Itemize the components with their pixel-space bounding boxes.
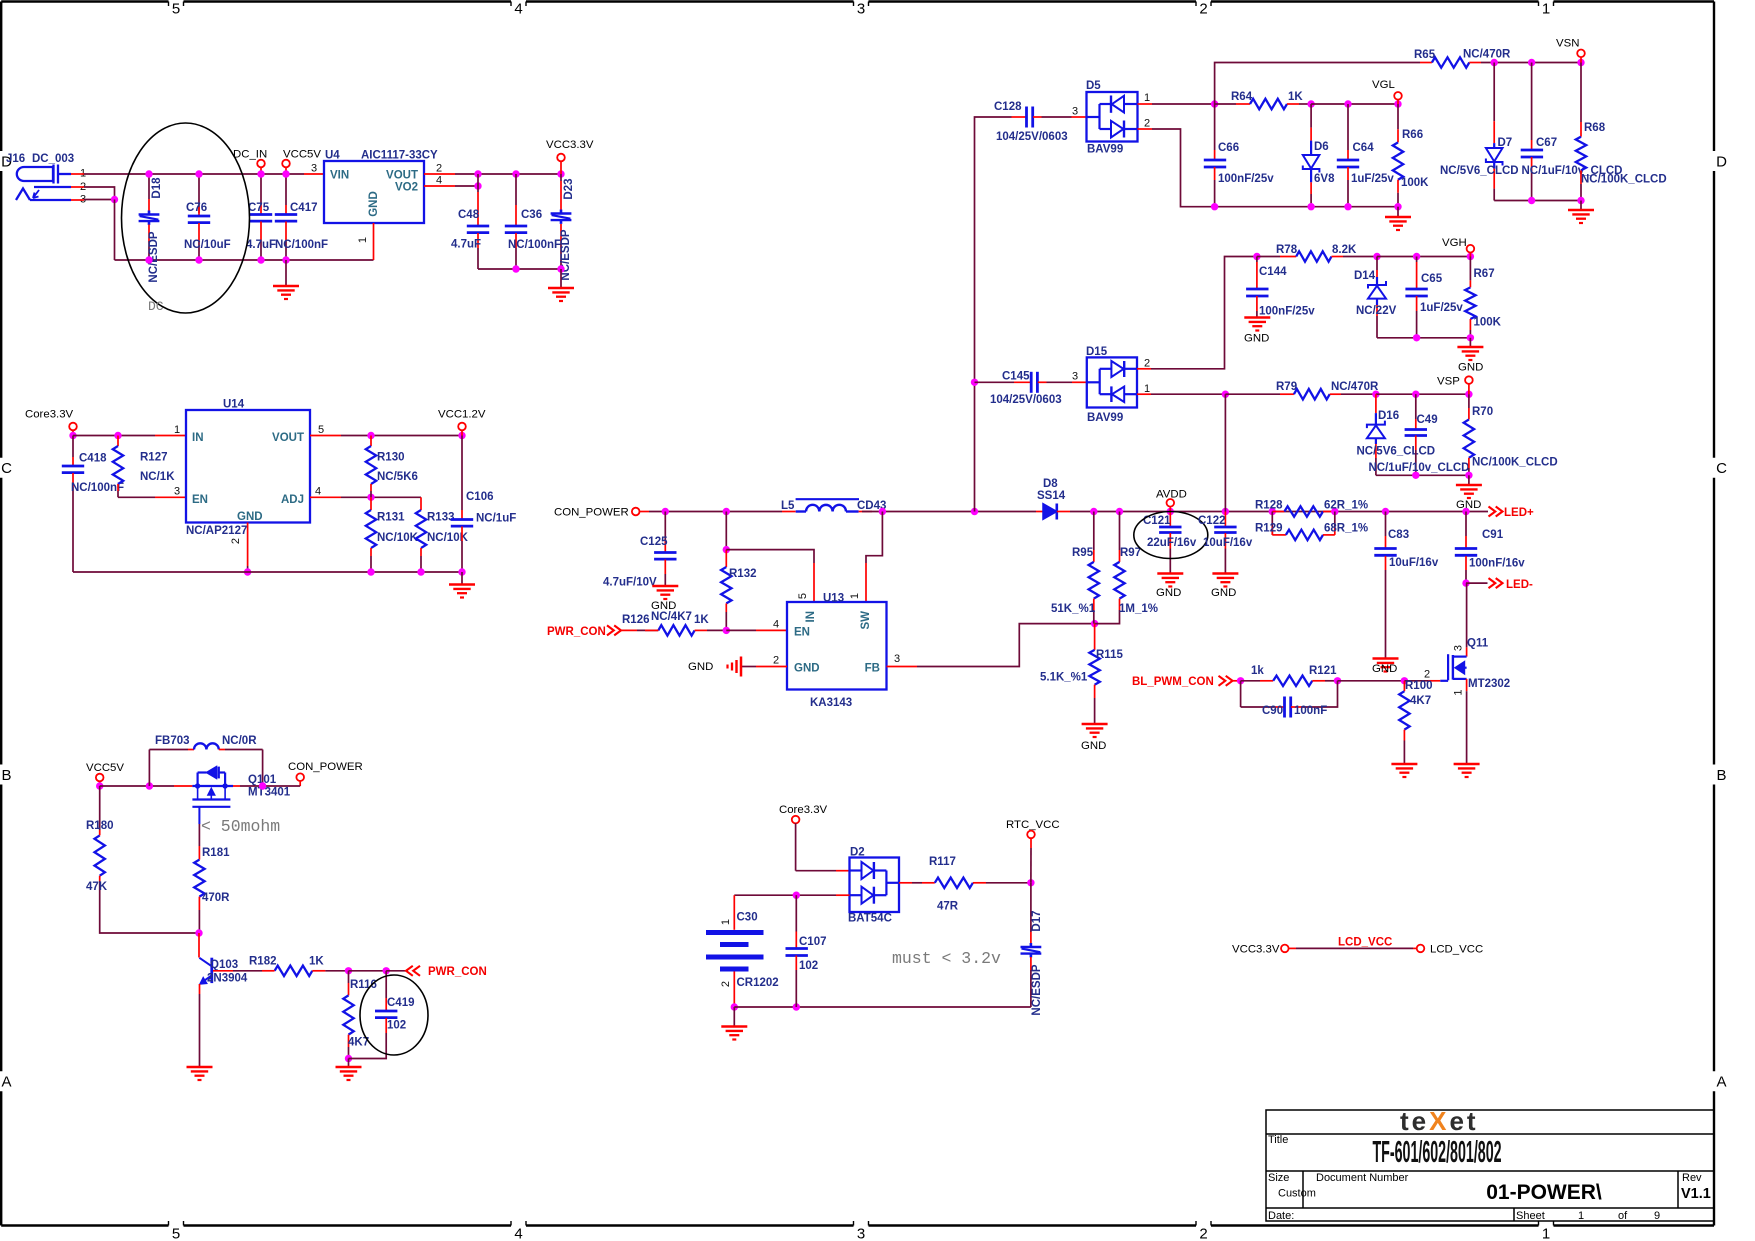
wire DC_IN top rail (84, 173, 304, 175)
ground symbol (187, 1066, 213, 1069)
svg-text:of: of (1618, 1210, 1628, 1222)
svg-text:4: 4 (773, 619, 779, 631)
svg-text:R129: R129 (1255, 523, 1283, 535)
svg-text:NC/470R: NC/470R (1463, 49, 1511, 61)
wire ground drop R116 (348, 1059, 350, 1068)
capacitor C145 104/25V/0603 (975, 381, 1015, 383)
capacitor C66 100nF/25v (1214, 104, 1216, 150)
svg-text:1: 1 (1144, 383, 1150, 395)
wire VCC3.3V ground rail (478, 268, 561, 270)
power port VCC1.2V (458, 423, 466, 431)
svg-text:LCD_VCC: LCD_VCC (1338, 937, 1392, 949)
svg-text:2N3904: 2N3904 (207, 973, 248, 985)
svg-text:470R: 470R (202, 892, 230, 904)
resistor R64 1K (1215, 103, 1236, 105)
diode D15 BAV99 (1087, 357, 1137, 407)
ground symbol (336, 1066, 362, 1069)
junction FB node (1091, 620, 1098, 627)
svg-text:C66: C66 (1218, 142, 1239, 154)
svg-text:C83: C83 (1388, 529, 1409, 541)
resistor R131 NC/10K (370, 497, 372, 510)
capacitor C75 4.7uF (260, 174, 262, 205)
wire ground drop under D23 (560, 269, 562, 288)
ellipse annotation around C419 (360, 975, 428, 1055)
junction C76 top (195, 170, 202, 177)
svg-text:VSN: VSN (1556, 38, 1579, 50)
wire D2 out to R117 (899, 882, 912, 884)
svg-text:2: 2 (1199, 1226, 1207, 1241)
ellipse annotation around C121 (1134, 512, 1208, 559)
junction R127 top (114, 432, 121, 439)
svg-text:100nF/25v: 100nF/25v (1218, 173, 1274, 185)
junction D7 top (1491, 59, 1498, 66)
wire ground drop VSP rail (1468, 475, 1470, 485)
inductor L5 CD43 (782, 511, 796, 513)
ground symbol (449, 583, 475, 586)
junction VO2/C48 (474, 182, 481, 189)
svg-text:Custom: Custom (1278, 1188, 1316, 1200)
svg-text:2: 2 (773, 655, 779, 667)
junction Q101 drain node (259, 782, 266, 789)
junction D6 top (1307, 100, 1314, 107)
svg-text:D23: D23 (563, 178, 575, 199)
junction R97 top (1116, 508, 1123, 515)
svg-text:NC/100nF: NC/100nF (275, 239, 328, 251)
svg-text:D17: D17 (1031, 910, 1043, 931)
svg-text:Title: Title (1268, 1134, 1288, 1146)
wire to U13 IN pin 5 (726, 550, 814, 563)
svg-text:Q103: Q103 (210, 959, 238, 971)
svg-text:VGL: VGL (1372, 79, 1395, 91)
svg-text:R100: R100 (1405, 680, 1433, 692)
svg-text:C128: C128 (994, 101, 1022, 113)
wire U4 VIN pin stub (304, 173, 324, 175)
capacitor C49 NC/1uF/10v_CLCD (1415, 394, 1417, 419)
wire charge pump feed vertical (975, 117, 1012, 512)
capacitor C419 102 (385, 971, 387, 998)
capacitor C76 NC/10uF (198, 174, 200, 213)
svg-text:100nF/25v: 100nF/25v (1259, 306, 1315, 318)
wire VGL ground rail (1215, 206, 1398, 208)
off-page connector LED+ (1489, 507, 1503, 517)
wire LCD_VCC (1296, 947, 1413, 949)
connector J16 DC_003 (DC jack) (17, 167, 53, 181)
svg-text:Core3.3V: Core3.3V (779, 804, 828, 816)
svg-text:NC/1K: NC/1K (140, 471, 175, 483)
svg-text:47R: 47R (937, 901, 959, 913)
svg-text:R97: R97 (1120, 547, 1141, 559)
wire U14 VOUT to VCC1.2V (310, 435, 341, 437)
junction C419 top (383, 967, 390, 974)
svg-text:Document Number: Document Number (1316, 1172, 1409, 1184)
svg-text:C36: C36 (521, 209, 542, 221)
svg-text:C91: C91 (1482, 529, 1504, 541)
diode D6 6V8 zener (1310, 104, 1312, 128)
svg-text:VO2: VO2 (395, 182, 418, 194)
junction VSN node (1577, 59, 1584, 66)
junction VCC3.3V node (557, 170, 564, 177)
ground symbol (1391, 763, 1417, 766)
wire L5 to D8 (862, 511, 1036, 513)
pin stub J16-2 (71, 186, 84, 188)
junction VCC5V node (96, 782, 103, 789)
junction C144/R78 node (1253, 253, 1260, 260)
svg-text:1: 1 (849, 593, 861, 599)
svg-text:10uF/16v: 10uF/16v (1203, 537, 1253, 549)
wire AVDD rail (1070, 511, 1488, 513)
junction C49 bottom (1412, 472, 1419, 479)
diode D16 NC/5V6_CLCD zener (1375, 394, 1377, 413)
svg-text:VOUT: VOUT (272, 432, 304, 444)
svg-text:D5: D5 (1086, 80, 1101, 92)
svg-text:R95: R95 (1072, 547, 1094, 559)
svg-text:1K: 1K (309, 956, 324, 968)
svg-text:Q11: Q11 (1467, 638, 1489, 650)
svg-text:NC/AP2127: NC/AP2127 (186, 525, 247, 537)
junction C66 bottom (1211, 203, 1218, 210)
junction C107 top (793, 892, 800, 899)
svg-text:SS14: SS14 (1037, 490, 1066, 502)
svg-text:5: 5 (318, 424, 324, 436)
wire D5 pin1 to R64 node (1138, 103, 1153, 105)
wire VGH ground rail (1377, 337, 1470, 339)
resistor R130 NC/5K6 (370, 436, 372, 447)
svg-text:5: 5 (172, 1, 180, 18)
capacitor C121 22uF/16v (1169, 512, 1171, 528)
svg-text:U13: U13 (823, 593, 844, 605)
svg-text:R116: R116 (350, 979, 377, 991)
diode D17 ESD NC/ESDP (1030, 883, 1032, 932)
svg-text:PWR_CON: PWR_CON (428, 966, 487, 978)
wire J16 pin3 to ground rail (84, 199, 115, 201)
svg-text:R68: R68 (1584, 122, 1606, 134)
svg-text:GND: GND (1156, 587, 1181, 599)
svg-text:C75: C75 (248, 202, 270, 214)
wire U14 ADJ net (310, 496, 341, 498)
svg-text:4.7uF: 4.7uF (451, 239, 481, 251)
svg-text:4.7uF/10V: 4.7uF/10V (603, 577, 657, 589)
junction Core3.3V node (69, 432, 76, 439)
capacitor C122 10uF/16v (1224, 512, 1226, 528)
power port DC_IN (257, 160, 265, 168)
svg-text:NC/4K7: NC/4K7 (651, 611, 692, 623)
ferrite bead FB703 NC/0R bypass (148, 750, 150, 787)
svg-text:U14: U14 (223, 399, 245, 411)
svg-text:GND: GND (1244, 333, 1269, 345)
resistor R97 1M_1% (1119, 512, 1121, 551)
svg-text:Core3.3V: Core3.3V (25, 409, 74, 421)
svg-text:U4: U4 (325, 150, 340, 162)
svg-text:R67: R67 (1474, 268, 1495, 280)
svg-text:MT3401: MT3401 (248, 787, 291, 799)
pin stub J16-3 (71, 199, 84, 201)
wire U13 FB to divider (887, 666, 918, 668)
svg-text:3: 3 (1072, 371, 1078, 383)
svg-text:BAV99: BAV99 (1087, 144, 1123, 156)
svg-text:C419: C419 (387, 997, 415, 1009)
svg-text:51K_%1: 51K_%1 (1051, 603, 1096, 615)
junction J16 pin3 node (111, 196, 118, 203)
svg-text:D16: D16 (1378, 410, 1399, 422)
svg-text:1: 1 (174, 424, 180, 436)
junction R128 left (1269, 508, 1276, 515)
junction C64 bottom (1344, 203, 1351, 210)
svg-text:must < 3.2v: must < 3.2v (892, 949, 1001, 968)
resistor R67 100K (1469, 257, 1471, 281)
ground symbol (1157, 572, 1183, 575)
svg-text:D18: D18 (151, 177, 163, 199)
resistor R133 NC/10K (420, 497, 422, 510)
resistor R181 470R (198, 824, 200, 846)
svg-text:R115: R115 (1096, 649, 1123, 661)
svg-text:2: 2 (230, 538, 242, 544)
svg-text:8.2K: 8.2K (1332, 244, 1357, 256)
svg-text:R79: R79 (1276, 381, 1297, 393)
svg-text:22uF/16v: 22uF/16v (1147, 537, 1197, 549)
svg-text:2: 2 (1144, 358, 1150, 370)
svg-text:B: B (1, 767, 11, 784)
svg-text:1: 1 (720, 919, 732, 925)
sheet border frame (1, 0, 168, 2)
svg-text:100K: 100K (1474, 317, 1502, 329)
wire left ground rail drop (114, 200, 116, 261)
svg-text:3: 3 (1453, 645, 1465, 651)
svg-text:VCC5V: VCC5V (283, 149, 321, 161)
junction C67 bottom (1528, 197, 1535, 204)
junction D18 bottom (145, 256, 152, 263)
junction C107 bottom (793, 1003, 800, 1010)
junction C91/LED+ node (1462, 508, 1469, 515)
svg-text:4: 4 (436, 175, 442, 187)
junction C67 top (1528, 59, 1535, 66)
junction R131 bottom (367, 568, 374, 575)
svg-text:4: 4 (514, 1, 522, 18)
svg-text:5: 5 (797, 593, 809, 599)
svg-text:BAV99: BAV99 (1087, 412, 1123, 424)
wire Core3.3V to U14 IN (73, 435, 155, 437)
svg-text:GND: GND (1211, 587, 1236, 599)
pin stub J16-1 (71, 173, 84, 175)
svg-text:teXet: teXet (1400, 1106, 1479, 1136)
junction C75 bottom (257, 256, 264, 263)
svg-text:1k: 1k (1251, 665, 1264, 677)
junction AVDD/C121 (1167, 508, 1174, 515)
ground symbol (1373, 657, 1399, 660)
wire U4 VO2 (424, 185, 455, 187)
diode D14 NC/22V zener (1376, 257, 1378, 271)
junction VGH node (1467, 253, 1474, 260)
junction D14 top (1373, 253, 1380, 260)
wire D15 pin2 to VGH line (1151, 257, 1257, 369)
svg-text:R126: R126 (622, 614, 650, 626)
svg-text:V1.1: V1.1 (1681, 1186, 1711, 1202)
svg-text:2: 2 (1199, 1, 1207, 18)
svg-text:R65: R65 (1414, 49, 1436, 61)
svg-text:L5: L5 (781, 500, 795, 512)
junction R130 top (367, 432, 374, 439)
junction FB703 right node (259, 782, 266, 789)
svg-text:DC_IN: DC_IN (233, 149, 267, 161)
svg-text:Size: Size (1268, 1172, 1289, 1184)
resistor R115 5.1K_%1 (1094, 624, 1096, 650)
svg-text:C30: C30 (737, 912, 758, 924)
svg-text:NC/0R: NC/0R (222, 735, 257, 747)
svg-text:GND: GND (368, 191, 380, 217)
resistor R121 1k (1241, 680, 1260, 682)
svg-text:D7: D7 (1498, 137, 1513, 149)
svg-text:CON_POWER: CON_POWER (554, 507, 629, 519)
junction R66 bottom (1394, 203, 1401, 210)
svg-text:Sheet: Sheet (1516, 1210, 1545, 1222)
wire to U13 EN pin 4 (726, 629, 756, 631)
power port VCC3.3V (557, 154, 565, 162)
diode D5 BAV99 (1087, 92, 1138, 142)
svg-text:2: 2 (720, 981, 732, 987)
svg-text:GND: GND (237, 511, 263, 523)
junction R128 right (1331, 508, 1338, 515)
svg-text:C: C (1716, 460, 1727, 477)
svg-text:VCC3.3V: VCC3.3V (546, 139, 594, 151)
resistor R126 1K (658, 625, 694, 635)
svg-text:NC/100K_CLCD: NC/100K_CLCD (1581, 174, 1667, 186)
svg-text:4: 4 (514, 1226, 522, 1241)
resistor R100 4K7 (1403, 681, 1405, 691)
svg-text:10uF/16v: 10uF/16v (1389, 557, 1439, 569)
diode D7 NC/5V6_CLCD zener (1493, 63, 1495, 122)
junction VSP node (1465, 391, 1472, 398)
ground symbol (1244, 316, 1270, 319)
junction R121 right node (1334, 677, 1341, 684)
wire gate drive to Q11 (1338, 680, 1405, 682)
diode D23 ESD NC/ESDP (560, 174, 562, 181)
junction D16 top (1372, 391, 1379, 398)
svg-text:DC_003: DC_003 (32, 153, 74, 165)
svg-text:EN: EN (192, 494, 208, 506)
svg-text:A: A (1, 1074, 11, 1091)
wire J16 pin2 to pin3 node (84, 187, 115, 200)
junction D6 bottom (1307, 203, 1314, 210)
svg-text:TF-601/602/801/802: TF-601/602/801/802 (1372, 1135, 1501, 1170)
junction C66/R64 node (1211, 100, 1218, 107)
svg-text:VCC1.2V: VCC1.2V (438, 409, 486, 421)
svg-text:R117: R117 (929, 856, 956, 868)
junction R116 top (345, 967, 352, 974)
junction C125 tap (662, 508, 669, 515)
wire D15 pin1 to VSP line (1137, 393, 1151, 395)
resistor R66 100K (1397, 104, 1399, 129)
pin stub U14 GND (247, 523, 249, 567)
svg-text:NC/470R: NC/470R (1331, 381, 1379, 393)
svg-text:EN: EN (794, 627, 810, 639)
pin stub D15 pin2 (1137, 368, 1151, 370)
junction R116/C419 bottom (345, 1055, 352, 1062)
svg-text:GND: GND (688, 661, 713, 673)
svg-text:R64: R64 (1231, 91, 1253, 103)
svg-text:C144: C144 (1259, 266, 1287, 278)
wire VSN feed line (1215, 63, 1420, 105)
capacitor C125 4.7uF/10V (664, 512, 666, 541)
svg-text:5.1K_%1: 5.1K_%1 (1040, 672, 1088, 684)
junction LED- node (1462, 579, 1469, 586)
svg-text:C65: C65 (1421, 273, 1443, 285)
junction VGL node (1394, 100, 1401, 107)
resistor R95 51K_%1 (1093, 512, 1095, 551)
svg-text:104/25V/0603: 104/25V/0603 (990, 394, 1062, 406)
svg-text:GND: GND (794, 663, 820, 675)
junction R67 bottom (1467, 334, 1474, 341)
svg-text:ADJ: ADJ (281, 494, 304, 506)
diode D2 BAT54C (850, 858, 900, 913)
svg-text:01-POWER\: 01-POWER\ (1486, 1181, 1602, 1204)
pin stub U4 GND (373, 223, 375, 260)
svg-text:1K: 1K (1288, 91, 1303, 103)
junction R132/IN wire (723, 546, 730, 553)
svg-text:6V8: 6V8 (1314, 173, 1335, 185)
title block (1266, 1110, 1714, 1221)
ground symbol (721, 1025, 747, 1028)
diode D8 SS14 (1036, 511, 1043, 513)
svg-text:2: 2 (1144, 118, 1150, 130)
svg-text:D14: D14 (1354, 270, 1376, 282)
wire R64 to VGL (1311, 103, 1398, 105)
svg-text:NC/ESDP: NC/ESDP (1031, 964, 1043, 1015)
svg-text:1: 1 (1144, 92, 1150, 104)
wire VSN ground rail (1494, 200, 1581, 202)
wire CON_POWER main line (649, 511, 782, 513)
ground symbol (1454, 763, 1480, 766)
svg-text:3: 3 (1072, 106, 1078, 118)
svg-text:100K: 100K (1401, 177, 1429, 189)
svg-text:1: 1 (1578, 1210, 1584, 1222)
svg-text:R70: R70 (1472, 406, 1493, 418)
ground symbol (1456, 484, 1482, 487)
svg-text:GND: GND (1456, 499, 1481, 511)
svg-text:VSP: VSP (1437, 376, 1460, 388)
svg-text:1M_1%: 1M_1% (1119, 603, 1158, 615)
ground symbol (273, 285, 299, 288)
power port VSN (1577, 50, 1585, 58)
wire battery rail (734, 894, 836, 896)
power port VGH (1467, 245, 1475, 253)
wire VCC3.3V rail from U4 VOUT (424, 173, 455, 175)
resistor R182 1K (275, 966, 313, 976)
svg-text:C76: C76 (186, 202, 207, 214)
svg-text:C125: C125 (640, 536, 668, 548)
junction D18 top (145, 170, 152, 177)
junction C417 bottom (282, 256, 289, 263)
svg-text:3: 3 (311, 163, 317, 175)
wire ground drop VGL rail (1397, 207, 1399, 217)
svg-text:D: D (1716, 154, 1727, 171)
svg-text:AIC1117-33CY: AIC1117-33CY (361, 150, 438, 162)
junction FB703 left node (146, 782, 153, 789)
ground symbol (1385, 216, 1411, 219)
wire R79 to VSP (1376, 393, 1469, 395)
svg-text:NC/100nF: NC/100nF (508, 239, 561, 251)
svg-text:C64: C64 (1353, 142, 1375, 154)
svg-text:SW: SW (860, 611, 872, 630)
capacitor C64 1uF/25v (1347, 104, 1349, 150)
svg-text:FB: FB (865, 663, 880, 675)
junction VCC1.2V node (458, 432, 465, 439)
wire R78 to VGH (1377, 256, 1470, 258)
junction C64 top (1344, 100, 1351, 107)
capacitor C417 NC/100nF (285, 174, 287, 205)
svg-text:1: 1 (1542, 1226, 1550, 1241)
svg-text:DC: DC (148, 299, 164, 314)
svg-text:BAT54C: BAT54C (848, 913, 892, 925)
svg-text:D6: D6 (1314, 141, 1329, 153)
